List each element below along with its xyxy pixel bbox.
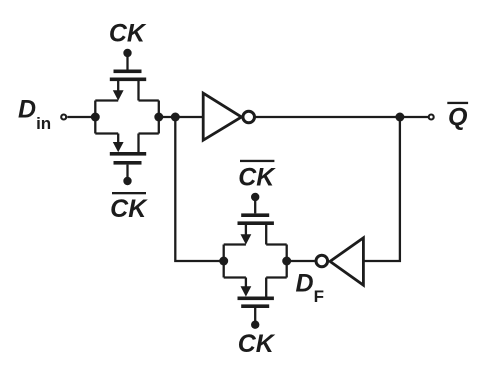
svg-text:DF: DF (296, 269, 324, 306)
wire output down to inverter U2 input (363, 117, 400, 261)
wire U1 output to Qbar terminal (256, 116, 429, 118)
op-amp U1 inverter bubble (243, 111, 255, 123)
op-amp U2 inverter triangle (330, 238, 363, 285)
svg-text:Din: Din (18, 96, 51, 133)
transistor TG2 NMOS gate bar (241, 304, 269, 308)
node TG2 CK gate dot (251, 321, 259, 329)
transistor TG2 PMOS gate bar (241, 213, 269, 217)
transistor TG2 NMOS source/drain drops (246, 278, 266, 297)
label CKbar overline TG2 (240, 160, 274, 162)
node TG1 CK gate dot (123, 49, 131, 57)
op-amp U1 inverter triangle (203, 93, 241, 140)
node Qbar output terminal (429, 115, 434, 120)
svg-text:CK: CK (238, 163, 276, 191)
wire feedback node X down to TG2 (175, 117, 224, 261)
node Din input terminal (61, 115, 66, 120)
node TG1 left junction (91, 113, 100, 122)
transistor TG1 PMOS arrow (113, 90, 124, 100)
transistor TG2 PMOS source/drain drops (246, 225, 266, 245)
op-amp U2 inverter bubble (316, 255, 328, 267)
node TG2 CKbar gate dot (251, 193, 259, 201)
wire TG2 bottom gate stem (254, 308, 256, 325)
node X junction (171, 113, 180, 122)
node TG2 left junction (219, 257, 228, 266)
label Qbar overline (447, 102, 468, 104)
label CKbar overline TG1 (112, 192, 146, 194)
node output junction (395, 113, 404, 122)
node TG1 CKbar gate dot (123, 177, 131, 185)
transmission gate TG2 body wires (224, 245, 287, 278)
wire TG1 to inverter U1 (159, 116, 205, 118)
transistor TG1 NMOS gate bar (114, 161, 142, 165)
wire TG1 top gate stem (126, 53, 128, 70)
transistor TG1 NMOS arrow (113, 142, 124, 152)
transmission gate TG1 body wires (95, 101, 159, 134)
wire Din to TG1 left (67, 116, 96, 118)
node TG2 right junction (282, 257, 291, 266)
wire TG1 bottom gate stem (126, 165, 128, 181)
svg-text:CK: CK (109, 19, 147, 47)
transistor TG2 NMOS arrow (241, 286, 252, 296)
node TG1 right junction (154, 113, 163, 122)
transistor TG2 PMOS channel bar (238, 221, 274, 225)
svg-text:Q: Q (448, 104, 468, 132)
wire TG2 top gate stem (254, 197, 256, 213)
transistor TG1 NMOS source/drain drops (118, 134, 138, 153)
wire TG2 to inverter U2 bubble (287, 260, 315, 262)
transistor TG2 PMOS arrow (241, 234, 252, 244)
svg-text:CK: CK (238, 330, 276, 358)
transistor TG1 NMOS channel bar (110, 152, 146, 156)
transistor TG2 NMOS channel bar (238, 297, 274, 301)
transistor TG1 PMOS gate bar (114, 70, 142, 74)
transistor TG1 PMOS channel bar (110, 78, 146, 82)
svg-text:CK: CK (110, 195, 148, 223)
transistor TG1 PMOS source/drain drops (118, 81, 138, 101)
